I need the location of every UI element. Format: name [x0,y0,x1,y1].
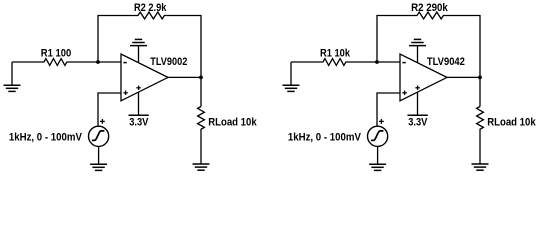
svg-text:3.3V: 3.3V [129,117,149,129]
svg-text:3.3V: 3.3V [408,117,428,129]
svg-text:TLV9042: TLV9042 [427,56,465,68]
svg-text:R2 2.9k: R2 2.9k [134,2,167,14]
svg-text:R2 290k: R2 290k [411,2,448,14]
svg-text:R1 100: R1 100 [41,47,71,59]
svg-text:RLoad 10k: RLoad 10k [208,116,257,128]
svg-text:1kHz, 0 - 100mV: 1kHz, 0 - 100mV [9,132,83,144]
svg-text:TLV9002: TLV9002 [150,56,187,68]
svg-text:1kHz, 0 - 100mV: 1kHz, 0 - 100mV [288,132,362,144]
svg-text:RLoad 10k: RLoad 10k [487,116,536,128]
svg-text:R1 10k: R1 10k [320,47,351,59]
